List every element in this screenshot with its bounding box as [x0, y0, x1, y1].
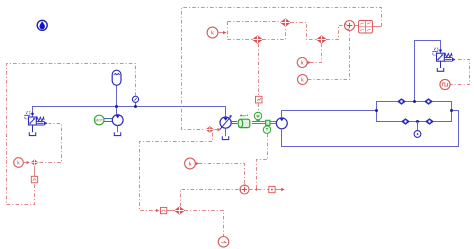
shaft P2-load	[231, 122, 237, 124]
tank under V2	[437, 68, 443, 71]
square I	[269, 186, 275, 192]
signal wire: diamond B down to square W1 and sensor S2	[258, 44, 260, 96]
square E	[156, 207, 167, 213]
svg-text:MOT: MOT	[95, 118, 103, 122]
signal wire: diamond D bottom long path to square E	[140, 133, 213, 211]
signal wire: k3 junction verticals	[227, 22, 229, 40]
fluid properties icon	[37, 20, 47, 30]
display H	[218, 237, 229, 248]
check valve bridge rectangle	[377, 102, 452, 122]
wire: pressure sensor stub	[135, 102, 137, 106]
tank under V1	[29, 132, 35, 135]
square K (bottom left)	[31, 176, 37, 183]
signal wire: diamond C down to gain k1	[311, 44, 322, 63]
signal wire: diamond F right to display H	[184, 211, 223, 237]
shaft M1-P1	[104, 119, 112, 122]
signal wire: gain k2 to summer S bottom	[308, 31, 350, 80]
tank under P2	[222, 136, 228, 139]
gain k1	[297, 58, 311, 68]
signal wire: diamond DL to valve V1 pilot	[39, 124, 61, 163]
signal wire: block TF to feedback junction	[373, 26, 382, 28]
node: sensor junction	[134, 105, 137, 108]
node: accumulator junction	[115, 105, 118, 108]
arrow terminator	[281, 188, 285, 192]
check valve CV3	[402, 119, 409, 125]
diamond DL	[31, 160, 38, 166]
speed sensor S2	[254, 112, 261, 121]
rotary load J1	[238, 115, 250, 128]
signal wire: sensor S1 to square K via left loop	[7, 64, 136, 205]
svg-text:k: k	[189, 162, 192, 168]
check valve CV4	[426, 119, 433, 125]
relief valve V1	[25, 112, 48, 132]
square W1 (above speed sensor)	[256, 96, 263, 103]
shaft coupler-motor	[270, 122, 276, 124]
torque sensor S3	[263, 126, 270, 133]
signal wire: diamond A to diamond C	[290, 23, 316, 40]
check valve CV1	[398, 99, 405, 105]
signal wire: square I output arrow	[275, 189, 281, 191]
svg-text:k: k	[301, 61, 304, 67]
signal wire: waveform source to valve V2 pilot	[450, 60, 469, 85]
node: sensor join	[255, 188, 257, 190]
wire: accumulator / charge pump vertical	[116, 85, 118, 115]
gain k2	[298, 75, 308, 85]
hydraulic motor M2	[276, 118, 287, 129]
signal wire: gain k4 to summer G top	[199, 164, 245, 186]
summer S	[345, 21, 355, 31]
block TF	[359, 21, 373, 34]
charge pump P1	[112, 115, 123, 133]
coupler	[266, 120, 270, 125]
relief valve V2 (right)	[433, 48, 456, 68]
signal wire: diamond C right to summer S	[326, 26, 344, 40]
wire: main hydraulic supply line	[33, 107, 226, 118]
signal wire: diamond F up to summer G	[181, 190, 240, 207]
tank circle under bridge	[417, 122, 419, 131]
prime mover M1	[94, 115, 104, 125]
gain k5 (bottom left)	[14, 158, 30, 168]
signal wire: summer S to block TF	[355, 25, 359, 27]
pressure sensor S1	[132, 96, 138, 102]
svg-text:k: k	[211, 31, 214, 37]
svg-text:k: k	[301, 78, 304, 84]
variable displacement pump P2	[220, 115, 232, 136]
signal wire: top feedback loop to diamond D	[182, 8, 382, 130]
diamond D (pump control)	[206, 126, 221, 132]
check valve CV2	[425, 99, 432, 105]
signal wire: square K to diamond DL	[34, 166, 36, 176]
gain k3 (top left)	[207, 27, 227, 38]
node: bridge top junction	[413, 100, 416, 103]
signal wire: summer G to square I with sensor join	[249, 189, 268, 191]
node: bridge bottom junction	[416, 120, 419, 123]
gain k4	[185, 158, 200, 169]
node: bridge right port	[450, 109, 453, 112]
tank under P1	[114, 132, 120, 135]
node: bridge left port	[375, 109, 378, 112]
signal wire: square E to diamond F	[167, 210, 175, 212]
diamond C	[317, 36, 327, 44]
wire: motor bottom loop	[282, 111, 459, 147]
diamond A	[281, 19, 291, 27]
summer G	[240, 185, 249, 194]
wire: motor top to bridge	[282, 111, 377, 118]
diamond F	[175, 207, 185, 215]
accumulator A1	[112, 70, 121, 85]
signal wire: diamond B right to diamond A bottom	[262, 27, 285, 40]
diamond B	[253, 36, 263, 44]
shaft load-coupler	[252, 122, 266, 124]
signal wire: torque sensor S3 down jog	[257, 134, 268, 190]
waveform source W	[440, 79, 450, 89]
wire: supply into bridge	[415, 41, 441, 102]
